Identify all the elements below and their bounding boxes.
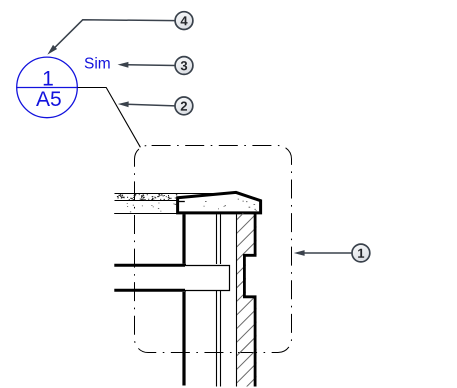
wall outer left edge (lower) (182, 292, 185, 386)
leader to balloon 3 (124, 64, 175, 67)
roof slab top line over cap (200, 193, 237, 195)
svg-text:Sim: Sim (84, 55, 111, 72)
arrowhead 4 (47, 45, 57, 55)
callout leader wire (78, 88, 141, 148)
coping cap (178, 192, 261, 213)
balloon 4 (175, 12, 193, 30)
leader to balloon 1 (299, 252, 352, 254)
beam thin outline inside wall (185, 266, 230, 291)
beam bottom edge thick (114, 289, 186, 292)
membrane line pair lower (216, 290, 218, 387)
arrowhead 2 (118, 101, 129, 107)
balloon 2 (175, 97, 193, 115)
beam top edge thick (114, 264, 186, 267)
slab middle line into wall (177, 201, 185, 203)
membrane line pair upper (217, 214, 221, 386)
svg-text:A5: A5 (36, 88, 62, 111)
wall diagonal hatching (237, 199, 258, 388)
slab speckle hatch sparse (127, 203, 176, 212)
leader to balloon 2 (124, 104, 175, 106)
arrowhead 1 (294, 250, 305, 256)
leader to balloon 4 (51, 20, 175, 52)
roof slab middle line (115, 200, 178, 202)
slab speckle hatch dense (117, 195, 177, 200)
detail boundary (dash-dot rounded rect) (135, 146, 292, 353)
hatch zone left line (236, 214, 238, 386)
balloon 1 (352, 244, 370, 262)
wall outer right edge with notch (244, 214, 255, 387)
cap speckles (204, 199, 257, 210)
roof slab top line (115, 193, 237, 195)
roof slab bottom line (114, 213, 179, 215)
detail callout circle A5 (17, 57, 78, 118)
balloon 3 (175, 57, 193, 75)
wall outer left edge (upper) (182, 214, 185, 264)
arrowhead 3 (118, 62, 129, 68)
